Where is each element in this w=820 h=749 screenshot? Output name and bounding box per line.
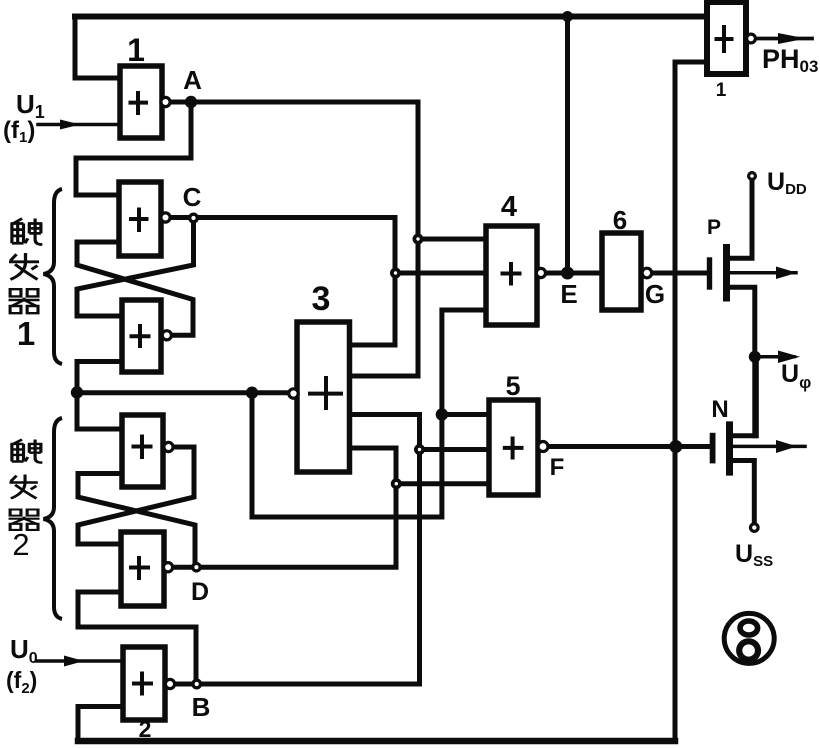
svg-text:3: 3 bbox=[312, 280, 331, 318]
svg-text:5: 5 bbox=[505, 371, 520, 401]
svg-text:D: D bbox=[191, 578, 209, 606]
svg-text:E: E bbox=[560, 279, 577, 309]
svg-text:1: 1 bbox=[17, 315, 35, 352]
svg-text:N: N bbox=[711, 396, 728, 423]
svg-text:2: 2 bbox=[12, 527, 29, 562]
svg-text:C: C bbox=[183, 182, 202, 212]
svg-text:B: B bbox=[192, 692, 211, 722]
svg-text:P: P bbox=[707, 216, 721, 239]
svg-text:6: 6 bbox=[613, 205, 627, 235]
svg-text:F: F bbox=[550, 454, 565, 481]
svg-text:2: 2 bbox=[139, 716, 152, 742]
svg-text:A: A bbox=[183, 65, 202, 95]
svg-text:1: 1 bbox=[716, 80, 727, 101]
svg-text:G: G bbox=[645, 279, 665, 309]
svg-text:1: 1 bbox=[127, 32, 145, 68]
svg-text:4: 4 bbox=[501, 191, 517, 223]
